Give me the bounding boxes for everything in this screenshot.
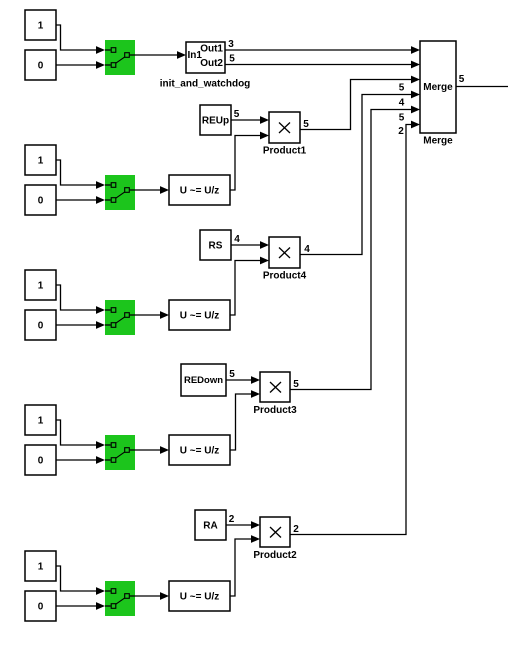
subsystem init_and_watchdog (In1/Out1/Out2) bbox=[186, 42, 225, 73]
svg-text:5: 5 bbox=[399, 113, 405, 124]
svg-text:REDown: REDown bbox=[184, 375, 223, 386]
wire REUp to Product1 in1 bbox=[231, 116, 269, 124]
detect-change block U ~= U/z (row 5) bbox=[169, 581, 230, 611]
svg-text:5: 5 bbox=[459, 74, 465, 85]
wire Product4 to Merge in4 bbox=[300, 91, 420, 255]
wire constant-0 to switch in2 (row 2) bbox=[56, 196, 105, 204]
svg-text:2: 2 bbox=[398, 126, 404, 137]
svg-text:1: 1 bbox=[38, 21, 44, 32]
label Product1 bbox=[263, 146, 307, 157]
wire switch row5 to U/z block bbox=[135, 592, 169, 600]
svg-text:Product1: Product1 bbox=[263, 146, 307, 157]
label 5 on Merge output bbox=[459, 74, 465, 85]
label 4 at Merge in4 bbox=[399, 98, 405, 109]
label init_and_watchdog bbox=[160, 79, 251, 90]
label 2 on Product2 output bbox=[293, 524, 299, 535]
constant block one (row 3) bbox=[25, 270, 56, 300]
constant block one (row 2) bbox=[25, 145, 56, 175]
constant block zero (row 1) bbox=[25, 50, 56, 80]
svg-text:1: 1 bbox=[38, 562, 44, 573]
wire constant-1 to switch in1 (row 2) bbox=[56, 160, 105, 189]
constant block zero (row 4) bbox=[25, 445, 56, 475]
label 4 on RS wire bbox=[234, 234, 240, 245]
svg-text:0: 0 bbox=[38, 456, 44, 467]
wire switch row2 to U/z block bbox=[135, 186, 169, 194]
manual switch (row 5) bbox=[105, 581, 135, 616]
wire U/z row4 to Product3 in2 bbox=[230, 394, 252, 450]
constant block RA bbox=[195, 510, 226, 540]
detect-change block U ~= U/z (row 4) bbox=[169, 435, 230, 465]
svg-text:1: 1 bbox=[38, 281, 44, 292]
label 4 on Product4 output bbox=[304, 244, 310, 255]
in-arrow Product1 in2 bbox=[260, 132, 269, 140]
detect-change block U ~= U/z (row 2) bbox=[169, 175, 230, 205]
svg-text:1: 1 bbox=[38, 416, 44, 427]
wire constant-1 to switch in1 (row 1) bbox=[56, 25, 105, 54]
constant block zero (row 3) bbox=[25, 310, 56, 340]
wire switch row4 to U/z block bbox=[135, 446, 169, 454]
svg-text:Merge: Merge bbox=[423, 82, 453, 93]
label 5 on REDown wire bbox=[229, 369, 235, 380]
wire Product3 to Merge in5 bbox=[290, 106, 420, 390]
svg-text:0: 0 bbox=[38, 321, 44, 332]
constant block one (row 4) bbox=[25, 405, 56, 435]
svg-text:5: 5 bbox=[234, 109, 240, 120]
svg-text:U ~= U/z: U ~= U/z bbox=[180, 311, 219, 322]
product block Product2 bbox=[260, 517, 290, 547]
svg-text:Out1: Out1 bbox=[200, 44, 223, 55]
svg-text:REUp: REUp bbox=[202, 116, 229, 127]
svg-text:Merge: Merge bbox=[423, 136, 453, 147]
svg-text:5: 5 bbox=[303, 119, 309, 130]
label 5 on Product1 output bbox=[303, 119, 309, 130]
wire Merge output bbox=[456, 86, 508, 88]
svg-text:Product3: Product3 bbox=[253, 405, 297, 416]
detect-change block U ~= U/z (row 3) bbox=[169, 300, 230, 330]
label 5 at Merge in3 bbox=[399, 83, 405, 94]
svg-text:U ~= U/z: U ~= U/z bbox=[180, 592, 219, 603]
in-arrow Product4 in2 bbox=[260, 257, 269, 265]
label 2 at Merge in6 bbox=[398, 126, 404, 137]
wire REDown to Product3 in1 bbox=[226, 376, 260, 384]
svg-text:2: 2 bbox=[293, 524, 299, 535]
label 5 at Merge in5 bbox=[399, 113, 405, 124]
label 5 on Product3 output bbox=[293, 379, 299, 390]
svg-text:Product4: Product4 bbox=[263, 271, 307, 282]
wire switch row3 to U/z block bbox=[135, 311, 169, 319]
manual switch (row 4) bbox=[105, 435, 135, 470]
constant block zero (row 2) bbox=[25, 185, 56, 215]
wire constant-1 to switch in1 (row 3) bbox=[56, 285, 105, 314]
constant block one (row 1) bbox=[25, 10, 56, 40]
svg-text:Product2: Product2 bbox=[253, 550, 297, 561]
in-arrow Product2 in2 bbox=[251, 535, 260, 543]
wire constant-0 to switch in2 (row 3) bbox=[56, 321, 105, 329]
wire RS to Product4 in1 bbox=[231, 241, 269, 249]
product block Product1 bbox=[269, 112, 300, 143]
constant block REUp bbox=[200, 105, 231, 135]
manual switch (row 3) bbox=[105, 300, 135, 335]
wire Out1 to Merge in1 bbox=[225, 46, 420, 54]
svg-text:4: 4 bbox=[304, 244, 310, 255]
svg-text:4: 4 bbox=[399, 98, 405, 109]
label Product4 bbox=[263, 271, 307, 282]
svg-text:init_and_watchdog: init_and_watchdog bbox=[160, 79, 251, 90]
svg-text:1: 1 bbox=[38, 156, 44, 167]
wire constant-1 to switch in1 (row 4) bbox=[56, 420, 105, 449]
svg-text:RA: RA bbox=[203, 521, 217, 532]
svg-text:2: 2 bbox=[229, 514, 235, 525]
constant block RS bbox=[200, 230, 231, 260]
merge block Merge bbox=[420, 41, 456, 133]
wire constant-0 to switch in2 (row 4) bbox=[56, 456, 105, 464]
product block Product3 bbox=[260, 372, 290, 402]
manual switch (row 1) bbox=[105, 40, 135, 75]
wire U/z row5 to Product2 in2 bbox=[230, 539, 252, 596]
label 5 on REUp wire bbox=[234, 109, 240, 120]
wire constant-0 to switch in2 (row 1) bbox=[56, 61, 105, 69]
svg-text:U ~= U/z: U ~= U/z bbox=[180, 186, 219, 197]
wire RA to Product2 in1 bbox=[226, 521, 260, 529]
constant block zero (row 5) bbox=[25, 591, 56, 621]
label 5 on Out2 wire bbox=[229, 54, 235, 65]
svg-text:5: 5 bbox=[229, 369, 235, 380]
wire Product1 to Merge in3 bbox=[300, 76, 420, 130]
svg-text:RS: RS bbox=[209, 241, 223, 252]
manual switch (row 2) bbox=[105, 175, 135, 210]
svg-text:4: 4 bbox=[234, 234, 240, 245]
in-arrow Product3 in2 bbox=[251, 390, 260, 398]
svg-text:5: 5 bbox=[293, 379, 299, 390]
label Product2 bbox=[253, 550, 297, 561]
svg-text:0: 0 bbox=[38, 61, 44, 72]
svg-text:Out2: Out2 bbox=[200, 58, 223, 69]
svg-text:U ~= U/z: U ~= U/z bbox=[180, 446, 219, 457]
product block Product4 bbox=[269, 237, 300, 268]
svg-text:3: 3 bbox=[228, 39, 234, 50]
svg-text:0: 0 bbox=[38, 602, 44, 613]
label 3 on Out1 wire bbox=[228, 39, 234, 50]
wire Out2 to Merge in2 bbox=[225, 61, 420, 69]
label Product3 bbox=[253, 405, 297, 416]
constant block REDown bbox=[181, 364, 226, 396]
constant block one (row 5) bbox=[25, 551, 56, 581]
wire switch row1 to In1 bbox=[135, 51, 186, 59]
svg-text:0: 0 bbox=[38, 196, 44, 207]
wire constant-0 to switch in2 (row 5) bbox=[56, 602, 105, 610]
wire constant-1 to switch in1 (row 5) bbox=[56, 566, 105, 595]
wire U/z row3 to Product4 in2 bbox=[230, 261, 261, 316]
svg-text:5: 5 bbox=[399, 83, 405, 94]
label Merge bbox=[423, 136, 453, 147]
svg-text:5: 5 bbox=[229, 54, 235, 65]
label 2 on RA wire bbox=[229, 514, 235, 525]
wire Product2 to Merge in6 bbox=[290, 121, 420, 535]
wire U/z row2 to Product1 in2 bbox=[230, 136, 261, 191]
